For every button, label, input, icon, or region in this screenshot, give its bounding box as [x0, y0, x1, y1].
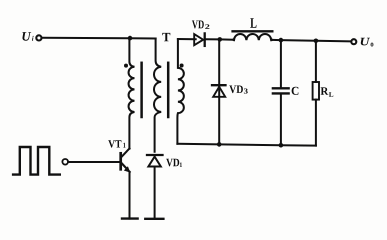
- junction VD3 bottom: [217, 142, 222, 147]
- label C: [292, 87, 299, 95]
- winding N3 reset: [154, 39, 161, 152]
- core bar right: [167, 63, 170, 117]
- resistor RL body: [313, 82, 319, 100]
- resistor RL wires: [315, 41, 317, 146]
- terminal drive: [62, 159, 68, 165]
- junction VD3 top: [218, 37, 223, 42]
- label RL: [321, 87, 334, 96]
- label VD1: [166, 159, 182, 167]
- ground bar VD1: [145, 218, 163, 220]
- label L: [250, 18, 256, 28]
- terminal Ui: [36, 35, 41, 40]
- diode VD2: [194, 33, 205, 46]
- capacitor C plates: [273, 88, 289, 93]
- winding N1 primary: [129, 38, 135, 148]
- inductor L core bar: [233, 30, 273, 32]
- wire L to output: [272, 40, 350, 42]
- transistor VT1: [121, 148, 131, 172]
- ground bar emitter: [122, 217, 138, 219]
- inductor L winding: [233, 34, 272, 40]
- junction input-primary: [128, 36, 133, 41]
- wire secondary top: [178, 38, 196, 40]
- square wave symbol: [13, 147, 60, 175]
- polarity dot N2: [180, 64, 184, 68]
- wire emitter down: [129, 172, 131, 219]
- polarity dot N1: [124, 64, 128, 68]
- capacitor C wires: [280, 40, 282, 145]
- diode VD1: [147, 155, 163, 167]
- label VD3: [229, 85, 247, 93]
- wire VD2 to L: [206, 38, 233, 40]
- wire bottom rail: [177, 144, 316, 146]
- label Ui: [22, 32, 33, 41]
- wire VD1 down: [154, 167, 156, 219]
- transistor VT1 label: [108, 140, 125, 147]
- wire input top: [42, 37, 156, 40]
- junction RL top: [314, 39, 319, 44]
- label T: [162, 33, 170, 41]
- winding N2 secondary: [177, 39, 183, 144]
- junction C bottom: [279, 143, 284, 148]
- diode VD3: [212, 39, 226, 144]
- terminal Uo: [351, 39, 356, 44]
- wire base: [69, 161, 119, 163]
- junction C top: [279, 38, 284, 43]
- label VD2: [192, 20, 210, 28]
- core bar left: [140, 63, 143, 117]
- label Uo: [361, 38, 374, 47]
